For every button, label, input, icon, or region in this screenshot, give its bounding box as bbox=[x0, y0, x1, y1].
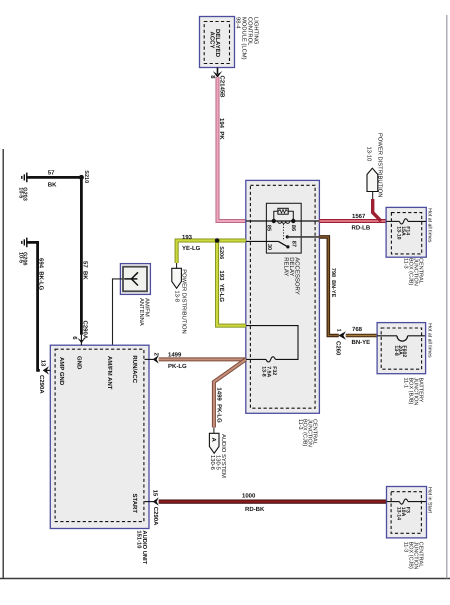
label AUDIO UNIT 151-10 bbox=[135, 530, 148, 564]
svg-text:BN-YE: BN-YE bbox=[352, 339, 371, 346]
svg-text:11-3: 11-3 bbox=[403, 542, 409, 553]
label G206 10-5 bbox=[17, 252, 27, 265]
svg-text:Hot at all times: Hot at all times bbox=[426, 323, 432, 358]
branch to power distribution (up arrow) bbox=[367, 168, 381, 221]
label 193 / YE-LG bbox=[182, 234, 201, 252]
fuse box F602 bbox=[377, 323, 426, 374]
pin 8 arrow from LCM bbox=[209, 68, 222, 80]
svg-text:POWER DISTRIBUTION: POWER DISTRIBUTION bbox=[181, 269, 188, 333]
wire 193 YE-LG horizontal bbox=[177, 241, 246, 264]
svg-text:C290A: C290A bbox=[38, 375, 45, 394]
svg-text:1000: 1000 bbox=[242, 492, 256, 499]
svg-text:1499: 1499 bbox=[168, 351, 182, 358]
label 768 / BN-YE bbox=[352, 326, 371, 346]
label POWER DISTRIBUTION 13-8 bbox=[173, 269, 187, 333]
svg-text:13-14: 13-14 bbox=[396, 507, 402, 520]
svg-text:130-6: 130-6 bbox=[209, 455, 216, 470]
svg-text:POWER DISTRIBUTION: POWER DISTRIBUTION bbox=[377, 133, 384, 197]
svg-text:10-5: 10-5 bbox=[17, 252, 23, 263]
svg-text:86: 86 bbox=[290, 225, 296, 231]
svg-text:13-10: 13-10 bbox=[396, 226, 402, 239]
svg-text:57: 57 bbox=[48, 169, 55, 176]
svg-text:1: 1 bbox=[336, 329, 342, 332]
label 1567 / RD-LB bbox=[352, 213, 371, 232]
wire 798 BN-YE bbox=[319, 237, 338, 336]
svg-text:Hot in Start: Hot in Start bbox=[426, 487, 432, 514]
splice S206 bbox=[215, 238, 220, 243]
antenna box bbox=[120, 264, 150, 295]
svg-text:694 BK-LG: 694 BK-LG bbox=[38, 258, 45, 291]
wire 193 YE-LG vertical to F32 bbox=[217, 241, 246, 326]
svg-text:1567: 1567 bbox=[352, 213, 366, 220]
svg-text:AMP GND: AMP GND bbox=[58, 357, 65, 386]
svg-text:193 YE-LG: 193 YE-LG bbox=[218, 270, 225, 302]
svg-text:C290A: C290A bbox=[152, 507, 159, 526]
relay internal box U-relay bbox=[266, 203, 301, 253]
label DELAYED ACCY bbox=[208, 29, 221, 58]
svg-text:87: 87 bbox=[290, 241, 296, 247]
label F3 10A 13-14 bbox=[396, 507, 411, 520]
antenna lead wire bbox=[113, 279, 123, 345]
fuse box F3 bbox=[387, 487, 427, 538]
svg-text:GND: GND bbox=[76, 356, 83, 370]
svg-text:Hot at all times: Hot at all times bbox=[426, 208, 432, 243]
label CENTRAL JUNCTION BOX (CJB) 11-3 under F3 bbox=[403, 542, 424, 570]
svg-text:AM/FM ANT: AM/FM ANT bbox=[106, 356, 113, 390]
power distribution arrow (down) bbox=[172, 263, 182, 288]
wire 768 BN-YE bbox=[346, 334, 381, 338]
resistor (parallel) bbox=[274, 208, 294, 221]
svg-text:RD-BK: RD-BK bbox=[245, 506, 265, 513]
wire 1000 RD-BK bbox=[159, 500, 391, 504]
wire 1499 PK-LG bbox=[159, 357, 246, 361]
svg-text:PK-LG: PK-LG bbox=[168, 363, 187, 370]
svg-text:CONTROL: CONTROL bbox=[247, 17, 254, 46]
svg-text:13-8: 13-8 bbox=[393, 345, 399, 355]
ground G206 bbox=[22, 238, 30, 248]
svg-text:98-4: 98-4 bbox=[235, 17, 242, 29]
label CENTRAL JUNCTION BOX (CJB) 11-3 under module bbox=[297, 419, 318, 447]
label G203 10-5 bbox=[17, 187, 27, 200]
svg-text:15: 15 bbox=[152, 490, 159, 497]
svg-text:YE-LG: YE-LG bbox=[182, 245, 201, 252]
wire 694 BK-LG bbox=[29, 242, 40, 370]
svg-text:BK: BK bbox=[48, 181, 57, 188]
svg-text:ANTENNA: ANTENNA bbox=[138, 298, 144, 326]
svg-text:1499 PK-LG: 1499 PK-LG bbox=[215, 387, 222, 423]
svg-text:11-3: 11-3 bbox=[403, 258, 409, 269]
fuse F32 path inside module bbox=[246, 326, 298, 362]
audio system arrow A bbox=[209, 428, 219, 454]
svg-text:10-5: 10-5 bbox=[17, 187, 23, 198]
connector C260 arrow bbox=[334, 329, 346, 356]
label AM/FM ANTENNA bbox=[138, 298, 150, 326]
label F14 15A 13-10 bbox=[396, 226, 411, 239]
svg-text:11-1: 11-1 bbox=[403, 378, 409, 389]
relay coil bbox=[278, 221, 290, 223]
svg-text:30: 30 bbox=[266, 244, 272, 250]
svg-text:S210: S210 bbox=[83, 170, 89, 183]
wire 57 BK vertical bbox=[80, 177, 83, 334]
junction dot pin 85 bbox=[272, 219, 276, 223]
pin 6 arrow into audio unit bbox=[71, 335, 86, 346]
label BATTERY JUNCTION BOX (BJB) 11-1 bbox=[403, 378, 424, 406]
svg-text:151-10: 151-10 bbox=[135, 530, 142, 548]
svg-text:LIGHTING: LIGHTING bbox=[253, 17, 260, 45]
svg-text:193: 193 bbox=[182, 234, 193, 241]
accessory delay relay module box (CJB) bbox=[246, 180, 320, 413]
label F602 20A 13-8 bbox=[393, 345, 407, 357]
svg-text:MODULE (LCM): MODULE (LCM) bbox=[241, 17, 248, 60]
audio unit box bbox=[50, 345, 149, 528]
label 1499 / PK-LG bbox=[168, 351, 187, 370]
lighting control module box bbox=[200, 17, 235, 68]
svg-text:13-10: 13-10 bbox=[365, 147, 372, 162]
label 1000 / RD-BK bbox=[242, 492, 265, 513]
splice S210 bbox=[79, 175, 84, 180]
svg-text:ACCY: ACCY bbox=[208, 32, 215, 49]
svg-text:13: 13 bbox=[39, 360, 46, 367]
svg-text:A: A bbox=[210, 438, 217, 443]
wire 194 PK bbox=[218, 77, 246, 221]
relay actuator dotted line bbox=[283, 224, 285, 240]
label AUDIO SYSTEM 130-5 130-6 bbox=[209, 434, 227, 478]
svg-text:768: 768 bbox=[352, 326, 363, 333]
svg-text:C260: C260 bbox=[334, 341, 341, 356]
pin 13 / AMP GND bbox=[38, 357, 65, 394]
svg-text:13-8: 13-8 bbox=[260, 366, 266, 376]
svg-text:57 BK: 57 BK bbox=[81, 261, 88, 280]
pin 15 arrow bbox=[145, 490, 160, 527]
page border right bbox=[446, 15, 448, 579]
junction dot pin 86 bbox=[291, 219, 295, 223]
svg-text:RD-LB: RD-LB bbox=[352, 225, 371, 232]
svg-text:11-3: 11-3 bbox=[297, 419, 303, 430]
svg-text:RELAY: RELAY bbox=[283, 257, 290, 276]
wire 1567 RD-LB bbox=[319, 219, 390, 223]
relay switch arm pin30 to contact bbox=[246, 241, 290, 248]
ground G203 bbox=[22, 173, 30, 183]
label F32 7.5A 13-8 bbox=[260, 366, 277, 377]
page border bottom bbox=[0, 578, 450, 580]
wire 57 BK horizontal bbox=[29, 176, 81, 179]
pin 87 dot and wire bbox=[286, 235, 320, 238]
label CENTRAL JUNCTION BOX (CJB) 11-3 under F14 bbox=[403, 258, 424, 286]
label POWER DISTRIBUTION 13-10 bbox=[365, 133, 383, 197]
antenna symbol bbox=[124, 272, 138, 285]
page border left bbox=[2, 149, 4, 579]
svg-text:194 PK: 194 PK bbox=[218, 118, 225, 140]
wire 1499 branch to audio system arrow bbox=[214, 359, 246, 427]
pin 2 arrow bbox=[145, 353, 160, 364]
svg-text:798 BN-YE: 798 BN-YE bbox=[330, 268, 336, 298]
svg-text:85: 85 bbox=[266, 225, 272, 231]
label LIGHTING CONTROL MODULE (LCM) 98-4 bbox=[235, 17, 260, 60]
fuse box F14 bbox=[386, 207, 426, 257]
label 57 / BK bbox=[48, 169, 57, 188]
label ACCESSORY DELAY RELAY bbox=[283, 257, 301, 295]
main line through relay coil (node) bbox=[246, 220, 320, 222]
svg-text:13-8: 13-8 bbox=[173, 290, 180, 302]
svg-text:RUN/ACC: RUN/ACC bbox=[131, 355, 138, 383]
svg-text:C290A: C290A bbox=[81, 321, 88, 340]
svg-text:S206: S206 bbox=[218, 246, 224, 259]
svg-text:START: START bbox=[131, 494, 138, 514]
